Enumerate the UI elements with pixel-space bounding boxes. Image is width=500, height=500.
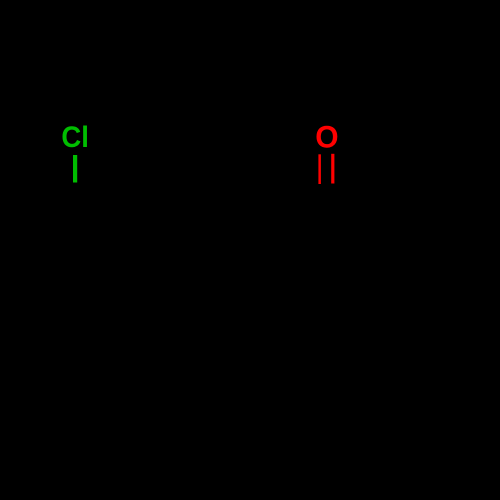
svg-text:Cl: Cl — [61, 121, 88, 154]
svg-text:O: O — [315, 120, 338, 155]
bond Cl-C1 (green half) — [73, 155, 77, 183]
double bond C=O line 2 — [331, 154, 334, 184]
double bond C=O line 1 — [318, 154, 321, 184]
